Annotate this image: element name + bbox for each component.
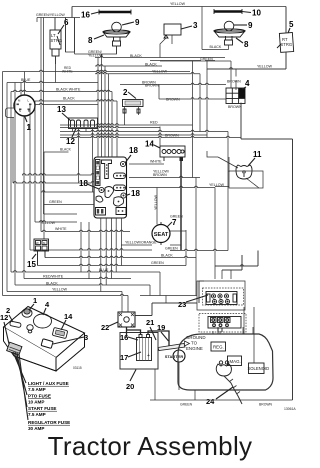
label 16 battery: [120, 333, 138, 342]
svg-text:BROWN: BROWN: [227, 80, 241, 84]
lamp housing right (item 8): [214, 29, 245, 45]
label 4: [242, 79, 250, 89]
svg-text:YELLOW: YELLOW: [170, 2, 186, 6]
wire row r192 y192: [41, 191, 94, 192]
wire row brown5 y137.5: [60, 136, 241, 137]
svg-text:2: 2: [123, 88, 128, 97]
lamp bulb right (item 9): [224, 21, 234, 31]
svg-text:W: W: [36, 241, 39, 245]
wire row yel2 y73.8: [95, 72, 200, 73]
label 18 right: [126, 189, 140, 198]
svg-text:STRG: STRG: [51, 38, 63, 43]
svg-text:LIGHT / AUX FUSE: LIGHT / AUX FUSE: [28, 381, 69, 386]
svg-text:9: 9: [135, 18, 140, 27]
wire item 11 loop: [229, 171, 263, 188]
svg-text:9: 9: [248, 21, 253, 30]
svg-text:YELLOW: YELLOW: [209, 183, 225, 187]
wire starter down: [178, 362, 180, 390]
svg-text:WHITE: WHITE: [55, 227, 67, 231]
svg-text:14: 14: [145, 140, 154, 149]
label 24: [206, 387, 233, 406]
console box assembly: [4, 307, 85, 372]
svg-text:STRG: STRG: [281, 42, 293, 47]
lamp bar item 10: [214, 9, 242, 14]
wire row yelorg y245: [121, 244, 152, 246]
wire row yelbrn y177.5: [129, 176, 200, 177]
wire row r131 y131.5: [60, 130, 228, 131]
svg-text:15: 15: [27, 260, 36, 269]
wire row r135 y135: [60, 134, 207, 135]
svg-text:BLACK WHITE: BLACK WHITE: [56, 87, 81, 91]
ignition switch item 1: [6, 95, 36, 118]
wire row blue y82.5: [7, 81, 98, 82]
label 1 ignition: [25, 116, 32, 132]
svg-text:SEAT: SEAT: [154, 232, 169, 238]
wire row r175 y175: [22, 174, 94, 175]
svg-text:BROWN: BROWN: [145, 84, 159, 88]
label 7: [167, 218, 177, 227]
svg-text:BLACK: BLACK: [161, 254, 173, 258]
svg-text:STARTER: STARTER: [165, 354, 184, 359]
wire row red y125: [60, 124, 193, 125]
wire row green265 y265.5: [38, 264, 187, 265]
svg-text:MAG.: MAG.: [230, 359, 241, 364]
wire row r270 y270: [222, 269, 242, 271]
label 5: [288, 20, 294, 33]
label 8 left lamp: [88, 35, 104, 45]
svg-text:BROWN: BROWN: [153, 173, 167, 177]
svg-text:REG.: REG.: [213, 345, 224, 350]
label 22 pointer: [101, 321, 120, 332]
svg-text:13061A: 13061A: [284, 407, 296, 411]
wire row yel187 y187.5: [129, 186, 215, 187]
wire green/yellow horizontal: [37, 7, 80, 53]
wire row yel-r y69: [207, 68, 286, 69]
svg-text:30 AMP: 30 AMP: [28, 426, 44, 431]
svg-text:GREEN: GREEN: [180, 403, 193, 407]
label 3: [181, 21, 198, 30]
relay K1 LT STRG (item 6): [50, 30, 62, 56]
label 11: [248, 150, 262, 166]
wire row redwhite278 y278.5: [24, 277, 131, 278]
wire right loop lower: [199, 251, 258, 304]
label 12 console: [0, 313, 9, 344]
svg-text:03115: 03115: [73, 366, 82, 370]
svg-text:BLACK: BLACK: [60, 148, 72, 152]
svg-text:GREEN: GREEN: [49, 200, 62, 204]
wire bottom ticks: [194, 390, 196, 400]
REG box: [211, 342, 226, 351]
svg-text:18: 18: [79, 179, 88, 188]
wire row blkwht y91.5: [11, 90, 112, 91]
svg-text:7: 7: [172, 218, 177, 227]
label 23: [178, 295, 208, 309]
svg-text:YELLOW: YELLOW: [154, 194, 158, 210]
svg-text:12: 12: [66, 137, 75, 146]
hour meter item 11: [236, 165, 252, 179]
svg-text:12: 12: [0, 313, 8, 322]
label 4 console: [43, 300, 50, 315]
wire verticals: [3, 7, 293, 401]
wire row white14 y164: [129, 163, 164, 165]
wire row green204 y204.5: [44, 204, 94, 206]
wire row r295a y295.5: [3, 294, 129, 295]
svg-text:5: 5: [289, 20, 294, 29]
connector item 4: [226, 88, 245, 104]
svg-text:BROWN: BROWN: [228, 105, 242, 109]
label 1 console: [29, 296, 37, 310]
wire row r214 y214: [44, 213, 78, 215]
solenoid bracket item 22: [118, 312, 135, 327]
fuse label pto: [28, 394, 51, 405]
starter motor: [165, 350, 185, 362]
svg-text:24: 24: [206, 397, 215, 406]
label 10: [242, 9, 261, 18]
svg-text:7.5 AMP: 7.5 AMP: [28, 412, 46, 417]
relay K2 RT STRG (item 5): [277, 33, 294, 53]
label 9 right lamp: [234, 21, 253, 30]
svg-text:REGULATOR FUSE: REGULATOR FUSE: [28, 420, 70, 425]
svg-text:7.5 AMP: 7.5 AMP: [28, 387, 46, 392]
wire row green250 y250: [30, 249, 152, 250]
wire row r315 y315.5: [135, 315, 152, 317]
connector item 23 lower: [199, 314, 246, 333]
svg-text:YELLOW: YELLOW: [52, 288, 68, 292]
wire row brn2 y99: [159, 98, 226, 99]
wire yellow top: [72, 6, 286, 8]
svg-text:20: 20: [126, 382, 134, 391]
console slot item14: [52, 327, 68, 338]
fuse leads: [13, 352, 28, 420]
SOLENOID box: [248, 363, 270, 374]
svg-text:10: 10: [252, 9, 261, 18]
svg-text:13: 13: [57, 105, 66, 114]
wire row yel222 y222: [35, 221, 77, 222]
MAG box: [228, 356, 242, 366]
svg-text:Tractor Assembly: Tractor Assembly: [48, 431, 253, 461]
svg-text:18: 18: [131, 189, 140, 198]
label 6: [58, 18, 69, 34]
wire row r183 y183: [13, 182, 94, 183]
label 21: [146, 318, 156, 340]
svg-text:GREEN: GREEN: [170, 215, 183, 219]
wire row grn250b y250.5: [170, 249, 228, 250]
svg-text:14: 14: [64, 312, 73, 321]
wire row ign1 y104.5: [35, 103, 98, 104]
battery cable positive: [127, 327, 170, 347]
wire row r295b y295.5: [140, 295, 197, 297]
svg-text:1: 1: [33, 296, 37, 305]
wire 22 to right loop: [135, 303, 197, 316]
wire row yellow291 y291.5: [7, 291, 122, 293]
wire row blue272 y272: [11, 271, 160, 272]
svg-text:YELLOW: YELLOW: [40, 221, 56, 225]
label 8 right lamp: [236, 38, 249, 49]
svg-text:6: 6: [64, 18, 69, 27]
wire item14 dark drop: [180, 161, 182, 250]
label 18 left: [79, 179, 99, 189]
wire lamp left down: [75, 46, 117, 58]
console small button: [27, 325, 33, 333]
net GROUND TO ENGINE: [186, 335, 206, 351]
lamp bar item 16: [99, 10, 131, 15]
wire row white231 y231.5: [41, 230, 130, 231]
svg-text:GREEN: GREEN: [151, 261, 164, 265]
label 16: [81, 11, 99, 20]
seat switch item 7: [152, 222, 186, 245]
svg-text:23: 23: [178, 300, 186, 309]
svg-text:SOLENOID: SOLENOID: [248, 366, 270, 371]
lamp housing left (item 8): [103, 30, 130, 46]
svg-text:BLACK: BLACK: [63, 97, 75, 101]
wire row grn1 y61: [160, 60, 231, 62]
svg-text:3: 3: [193, 21, 198, 30]
console slot item2: [10, 321, 22, 328]
svg-text:+: +: [147, 353, 150, 359]
wire yellow right side: [207, 7, 286, 70]
fuse block items 12 13: [69, 118, 98, 129]
battery box item 20: [120, 333, 158, 370]
ground strap to engine: [158, 341, 190, 351]
wire relay bottom down: [55, 56, 57, 83]
wire row black285 y285: [15, 284, 150, 285]
wire right lamp down: [202, 7, 229, 50]
svg-text:BROWN: BROWN: [165, 134, 179, 138]
connector item 23 upper: [197, 281, 245, 310]
svg-text:GREEN: GREEN: [165, 247, 178, 251]
console key cylinder: [22, 309, 32, 317]
connector item 15: [34, 239, 49, 266]
wire row r139 y139: [241, 138, 293, 140]
label 14: [145, 140, 160, 149]
fuse label regulator: [28, 420, 70, 431]
connector item 14: [160, 146, 185, 161]
svg-text:ENGINE: ENGINE: [186, 346, 203, 351]
svg-text:YELLOW/ORANGE: YELLOW/ORANGE: [125, 241, 157, 245]
label 18 top: [125, 146, 138, 163]
svg-text:BLACK: BLACK: [46, 281, 58, 285]
svg-text:18: 18: [129, 146, 138, 155]
wire green right: [150, 60, 215, 62]
wire from flasher down-left: [160, 35, 172, 58]
wire row r303 y303: [152, 302, 197, 304]
label 3 console: [53, 333, 88, 344]
label 15: [27, 254, 36, 269]
wire row yelorg2 y245: [170, 244, 181, 246]
hour meter / switch item 2: [123, 100, 144, 126]
svg-text:YELLOW: YELLOW: [257, 65, 273, 69]
svg-text:RED/WHITE: RED/WHITE: [43, 275, 64, 279]
label 20: [126, 370, 136, 392]
wire bottom border: [150, 369, 293, 400]
label 2 console: [6, 306, 13, 322]
svg-text:16: 16: [81, 11, 90, 20]
svg-text:19: 19: [157, 323, 165, 332]
label 14 console: [61, 312, 73, 330]
flasher box item 3: [164, 24, 181, 38]
svg-text:BLUE: BLUE: [99, 268, 109, 272]
svg-text:3: 3: [84, 333, 88, 342]
label 9 left lamp: [122, 18, 140, 27]
wire row black257 y257.5: [45, 256, 196, 257]
svg-text:22: 22: [101, 323, 109, 332]
label 19: [157, 323, 169, 341]
engine outline: [178, 334, 273, 390]
svg-text:GREEN/YELLOW: GREEN/YELLOW: [36, 13, 65, 17]
wire row brown1 y84.5: [120, 83, 226, 84]
svg-text:17: 17: [120, 353, 128, 362]
wire row blk2 y66: [95, 65, 162, 66]
label 17 battery: [120, 352, 141, 362]
svg-text:21: 21: [146, 318, 154, 327]
svg-text:BLACK: BLACK: [210, 45, 222, 49]
lamp bulb left (item 9): [112, 22, 122, 32]
svg-text:RED: RED: [150, 121, 158, 125]
svg-text:8: 8: [244, 40, 249, 49]
svg-text:START FUSE: START FUSE: [28, 406, 57, 411]
svg-text:TO: TO: [191, 341, 198, 346]
ignition coil / plug: [216, 361, 242, 404]
wire row blk152 y152: [44, 151, 69, 153]
fuse label start: [28, 406, 57, 417]
fuse label light/aux: [28, 381, 69, 392]
svg-text:11: 11: [253, 150, 262, 159]
wire row blk3 y101: [35, 100, 117, 101]
svg-text:BROWN: BROWN: [259, 403, 273, 407]
wire item4 verticals: [236, 69, 293, 400]
wire row r266 y266: [215, 265, 258, 266]
svg-text:PTO FUSE: PTO FUSE: [28, 394, 51, 399]
console rocker item3: [41, 339, 53, 349]
svg-text:BROWN: BROWN: [166, 98, 180, 102]
svg-text:10 AMP: 10 AMP: [28, 400, 44, 405]
svg-text:1: 1: [27, 123, 32, 132]
svg-text:WHITE: WHITE: [150, 160, 162, 164]
battery item 17: [137, 335, 152, 361]
wire row blk1 y57.5: [95, 56, 225, 57]
central PTO module: [94, 157, 127, 218]
wire row redwhite y71.5: [3, 70, 191, 71]
label 13: [57, 105, 71, 121]
svg-text:8: 8: [88, 36, 93, 45]
wire engine top feeds: [213, 307, 254, 363]
console choke knob: [34, 314, 52, 328]
label 2: [123, 88, 136, 99]
wire row r127 y127.5: [60, 126, 160, 127]
console connector item12: [7, 342, 22, 355]
label 12: [66, 129, 76, 147]
